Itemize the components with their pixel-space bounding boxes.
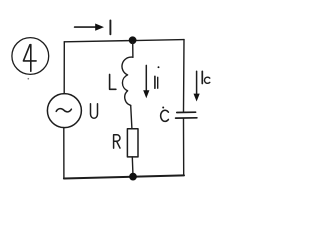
arrow Ii (inductor branch current) xyxy=(145,65,147,91)
wire top xyxy=(64,40,184,42)
capacitor C1 plates xyxy=(177,111,196,113)
wire right lower xyxy=(183,119,185,176)
speck below index circle xyxy=(28,78,30,80)
label U xyxy=(91,104,98,119)
arrow Ic (capacitor branch current) xyxy=(196,71,198,95)
node A (top junction) xyxy=(129,36,137,44)
resistor R1 body xyxy=(127,129,138,157)
index circle (4) xyxy=(12,38,49,75)
wire inductor to resistor xyxy=(131,105,132,128)
wire resistor to node B xyxy=(131,157,134,173)
source tilde xyxy=(56,109,71,112)
source U circle xyxy=(47,94,81,128)
label Ii xyxy=(154,76,156,88)
wire right upper xyxy=(183,40,186,112)
label Ic xyxy=(201,71,203,83)
node B (bottom junction) xyxy=(129,173,137,181)
label L xyxy=(110,74,116,89)
wire bottom xyxy=(64,175,184,178)
inductor L1 coil xyxy=(122,57,133,105)
wire left upper xyxy=(63,42,65,94)
label C (with dot) xyxy=(161,110,169,121)
label I xyxy=(109,20,111,34)
arrow I (top current) xyxy=(75,26,97,28)
wire node A to inductor xyxy=(132,42,134,57)
label R xyxy=(114,135,120,148)
digit 4 xyxy=(23,45,36,72)
wire left lower xyxy=(63,128,65,179)
